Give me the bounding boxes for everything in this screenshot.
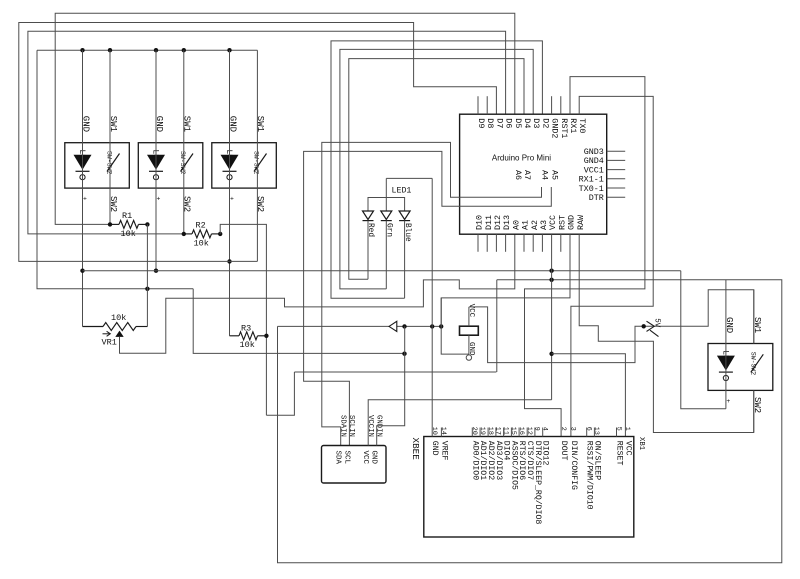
- module box 2 outline: [138, 143, 203, 188]
- wire: R1 right to VR1 right riser: [146, 224, 148, 326]
- svg-text:TX0: TX0: [577, 118, 587, 133]
- pin D9 (Arduino top): [477, 96, 479, 114]
- svg-text:SDA: SDA: [334, 451, 342, 465]
- svg-text:5: 5: [614, 427, 622, 431]
- svg-text:SW-SW2: SW-SW2: [253, 151, 260, 175]
- svg-text:SCL: SCL: [342, 451, 350, 465]
- svg-text:DOUT: DOUT: [559, 441, 568, 461]
- svg-text:+: +: [726, 398, 730, 405]
- svg-text:3: 3: [569, 427, 577, 431]
- pin RX1-1 (Arduino right FTDI): [607, 178, 626, 180]
- LED Blue of LED1: [399, 211, 410, 220]
- pin 16 RTS/DIO6 (XBee): [518, 428, 520, 437]
- svg-text:17: 17: [494, 427, 502, 435]
- svg-text:1: 1: [623, 427, 631, 431]
- svg-text:A4: A4: [540, 170, 550, 180]
- switch SW2 inside box 2: [181, 154, 194, 172]
- junction dot GND bus / Arduino VCC riser: [549, 269, 553, 273]
- pin RST1 (Arduino top): [560, 96, 562, 114]
- wire: box2 SW vertical (to R2 left): [183, 50, 185, 234]
- wire: riser x=496.8 (bottom-right rail to bus372): [496, 280, 498, 372]
- pin D12 (Arduino bottom): [495, 234, 497, 252]
- svg-text:R1: R1: [122, 211, 132, 221]
- wire: bus 288.8 corner down to bus 353.4: [193, 289, 404, 354]
- svg-text:D8: D8: [485, 118, 495, 128]
- svg-text:10k: 10k: [194, 239, 209, 249]
- svg-text:Red: Red: [366, 223, 374, 237]
- svg-text:SW2: SW2: [255, 196, 265, 212]
- wire: D7 net (Arduino D7 to bus1 / box3): [19, 23, 497, 262]
- pin 12 CTS/DIO7 (XBee): [526, 428, 528, 437]
- svg-text:A7: A7: [522, 170, 532, 180]
- svg-text:4: 4: [541, 427, 549, 431]
- wire: D6 net (Arduino D6 to R2 left): [28, 31, 506, 234]
- svg-text:13: 13: [592, 427, 600, 435]
- svg-text:9: 9: [533, 427, 541, 431]
- svg-text:RST1: RST1: [559, 118, 569, 138]
- pin VCC of power part: [468, 307, 470, 326]
- wire: VR1 wiper to A0 net: [120, 234, 515, 353]
- pin RST (Arduino bottom): [560, 234, 562, 252]
- svg-text:SW1: SW1: [752, 317, 762, 333]
- svg-text:GND: GND: [467, 342, 475, 356]
- svg-text:VCC: VCC: [361, 451, 369, 465]
- svg-text:12: 12: [525, 427, 533, 435]
- wire: R3-right link down to bus372: [266, 372, 294, 415]
- wire: TX0 to XBee DIN: [571, 96, 653, 436]
- wire: A4 to SDA (SDAIN): [322, 142, 542, 445]
- wire: box3 GND vertical (to bus1 and R3 left): [229, 50, 231, 336]
- wire: R2 right jog to R3-right vertical: [220, 224, 266, 415]
- svg-text:16: 16: [517, 427, 525, 435]
- pin 19 AD1/DIO1 (XBee): [479, 428, 481, 437]
- pin 11 DIO4 (XBee): [503, 428, 505, 437]
- wire: RAW staircase to box4 SW2: [579, 234, 754, 432]
- wire: 5V net from power part VCC: [469, 290, 754, 363]
- pin DTR (Arduino right FTDI): [607, 196, 626, 198]
- junction dot box2 GND / GND bus: [154, 269, 158, 273]
- svg-text:DIN/CONFIG: DIN/CONFIG: [569, 441, 579, 490]
- pin 13 ON/SLEEP (XBee): [593, 428, 595, 437]
- pin D11 (Arduino bottom): [486, 234, 488, 252]
- I2C block box: [322, 446, 387, 484]
- svg-text:GND: GND: [430, 441, 439, 456]
- svg-text:D3: D3: [531, 118, 541, 128]
- pin GND3 (Arduino right FTDI): [607, 150, 626, 152]
- wire: VCCIN to Arduino VCC riser: [368, 400, 551, 446]
- wire: GND bus drop to box4 LED lead: [681, 271, 726, 409]
- svg-text:11: 11: [501, 427, 509, 435]
- svg-text:SW1: SW1: [182, 116, 192, 132]
- VR1 wiper contact triangle: [115, 331, 123, 337]
- wire: box4 SW1 lead: [753, 290, 755, 344]
- svg-text:DTR: DTR: [589, 193, 604, 203]
- svg-text:ON/SLEEP: ON/SLEEP: [592, 441, 602, 480]
- svg-text:D4: D4: [522, 118, 532, 128]
- junction dot box3 GND / bus1: [227, 259, 231, 263]
- pin 9 DTR/SLEEP_RQ/DIO8 (XBee): [534, 428, 536, 437]
- svg-text:VCC: VCC: [623, 441, 632, 456]
- wire: Grn cathode to D3 net: [385, 221, 387, 289]
- svg-text:A6: A6: [513, 170, 523, 180]
- svg-text:D9: D9: [476, 118, 486, 128]
- svg-text:SW-SW2: SW-SW2: [106, 151, 113, 175]
- wire: D4 net: [349, 59, 524, 280]
- svg-text:2: 2: [559, 427, 567, 431]
- junction dots on top bus: [80, 48, 84, 52]
- svg-text:LED: LED: [224, 150, 233, 165]
- svg-text:D6: D6: [504, 118, 514, 128]
- wire: box2 GND vertical: [155, 50, 157, 271]
- pin 18 AD2/DIO2 (XBee): [487, 428, 489, 437]
- svg-text:RESET: RESET: [615, 441, 624, 466]
- LED D2 inside box 2: [147, 155, 165, 170]
- junction dot box1 GND / GND bus: [80, 269, 84, 273]
- wire: box4 SW2 drop: [753, 390, 755, 432]
- wire: Red cathode to D4 net: [367, 221, 369, 280]
- wire: D2 net: [331, 41, 542, 298]
- XBee XB1 box: [424, 437, 634, 538]
- module box 3 outline: [212, 143, 276, 188]
- svg-text:VR1: VR1: [102, 338, 117, 348]
- wire: GNDIN riser: [377, 326, 405, 445]
- wire: GND pin net: [441, 234, 570, 354]
- svg-text:GND2: GND2: [550, 118, 560, 138]
- wire: LED1 feed from XBee pin10 riser: [386, 177, 432, 179]
- svg-text:10: 10: [430, 427, 438, 435]
- junction dot bottom-right rail / VCC riser: [549, 278, 553, 282]
- pin A1 (Arduino bottom): [523, 234, 525, 252]
- pin 14 VREF (XBee): [440, 428, 442, 437]
- wire: LED1 anode bus: [368, 198, 405, 212]
- svg-text:SW-SW2: SW-SW2: [179, 151, 186, 175]
- junction dot bus353.4 / GNDIN riser: [402, 352, 406, 356]
- svg-text:+: +: [157, 196, 161, 203]
- svg-text:Arduino Pro Mini: Arduino Pro Mini: [492, 154, 551, 163]
- svg-text:LED1: LED1: [392, 187, 412, 196]
- LED D3 inside box 3: [221, 155, 239, 170]
- svg-text:LED: LED: [150, 150, 159, 165]
- pin 20 AD0/DIO0 (XBee): [471, 428, 473, 437]
- svg-text:XBEE: XBEE: [410, 438, 421, 461]
- resistor R1 10k: [110, 223, 119, 225]
- wire: triangle net horizontal y=326.4: [278, 325, 442, 327]
- svg-text:D7: D7: [494, 118, 504, 128]
- wire: XBee pin10 riser up to LED1 feed: [431, 178, 433, 436]
- switch inside box 4: [751, 354, 764, 372]
- pin D10 (Arduino bottom): [477, 234, 479, 252]
- svg-text:LED: LED: [77, 150, 86, 165]
- svg-text:RAW: RAW: [576, 214, 586, 230]
- junction dot bus288.8 / VR1 right riser: [145, 287, 149, 291]
- LED D1 inside box 1: [74, 155, 92, 170]
- svg-text:GND: GND: [724, 317, 734, 333]
- wire: A5 to SCL (SCLIN): [304, 151, 552, 445]
- wire: VCC riser: [551, 234, 553, 400]
- wire: Blue cathode to D2 net: [404, 221, 406, 299]
- svg-text:18: 18: [486, 427, 494, 435]
- LED Grn of LED1: [381, 211, 392, 220]
- svg-text:10k: 10k: [121, 229, 136, 239]
- pin A3 (Arduino bottom): [541, 234, 543, 252]
- wire: box1 GND vertical (top bus to VR1 left): [82, 50, 84, 326]
- svg-text:A5: A5: [549, 170, 559, 180]
- wire: box3 SW vertical: [256, 50, 258, 261]
- wire: GND bus y=270.7 (box1/box2 GND to box4): [83, 270, 681, 272]
- svg-text:D2: D2: [540, 118, 550, 128]
- LED inside box 4: [717, 356, 735, 371]
- svg-text:LED: LED: [720, 350, 729, 365]
- wire: RX1 to XBee DOUT: [525, 77, 645, 437]
- wire: bus y=372: [294, 371, 496, 373]
- pin A2 (Arduino bottom): [532, 234, 534, 252]
- wire: box1 SW vertical (top bus to R1 left): [109, 50, 111, 224]
- svg-text:Blue: Blue: [403, 223, 411, 242]
- wire: box4 GND lead: [725, 280, 727, 409]
- svg-text:DIO12: DIO12: [541, 441, 550, 466]
- pin GND2 (Arduino top): [551, 96, 553, 114]
- svg-text:SW1: SW1: [255, 116, 265, 132]
- wire: GND-net drop x=441.2: [440, 298, 442, 327]
- svg-text:SCLIN: SCLIN: [347, 415, 355, 437]
- pin 4 DIO12 (XBee): [542, 428, 544, 437]
- svg-text:5V: 5V: [653, 318, 661, 328]
- wire: top bus over switch boxes (net SW/GND top rail): [37, 49, 257, 51]
- svg-text:10k: 10k: [111, 313, 126, 323]
- power part P1 body: [460, 326, 479, 335]
- pin D13 (Arduino bottom): [505, 234, 507, 252]
- pin D8 (Arduino top): [486, 96, 488, 114]
- svg-text:SW-SW2: SW-SW2: [750, 352, 757, 376]
- svg-text:DIO4: DIO4: [502, 441, 511, 461]
- switch SW1 inside box 1: [107, 154, 120, 172]
- svg-text:15: 15: [509, 427, 517, 435]
- svg-text:10k: 10k: [240, 340, 255, 350]
- wire: D3 net: [340, 49, 533, 289]
- svg-text:SW2: SW2: [182, 196, 192, 212]
- wire: top bus riser x=37 down to bus 288.8: [37, 50, 193, 289]
- svg-text:14: 14: [439, 427, 447, 435]
- VR1 wiper arrow mark: [103, 333, 110, 335]
- switch SW3 inside box 3: [254, 154, 267, 172]
- svg-text:+: +: [230, 196, 234, 203]
- pin TX0-1 (Arduino right FTDI): [607, 187, 626, 189]
- pin GND4 (Arduino right FTDI): [607, 159, 626, 161]
- svg-text:VCC: VCC: [467, 304, 475, 318]
- wire: triangle net west drop to bottom rail: [278, 280, 782, 563]
- resistor R2 10k: [184, 233, 192, 235]
- svg-text:Grn: Grn: [385, 223, 393, 237]
- resistor R3 10k: [230, 335, 240, 337]
- pin GND of power part: [468, 335, 470, 355]
- svg-text:R3: R3: [241, 323, 251, 333]
- svg-text:D5: D5: [513, 118, 523, 128]
- wire: D5 net (Arduino D5 to R1 left): [55, 13, 515, 224]
- module box 4 outline: [708, 344, 773, 391]
- svg-text:R2: R2: [196, 221, 206, 231]
- svg-text:VREF: VREF: [439, 441, 448, 461]
- svg-text:GND: GND: [370, 451, 378, 465]
- svg-text:VCCIN: VCCIN: [366, 415, 374, 437]
- module box 1 outline: [65, 143, 130, 188]
- net-in triangle marker: [389, 321, 397, 331]
- junction dot R3 right: [264, 334, 268, 338]
- svg-text:6: 6: [585, 427, 593, 431]
- Arduino Pro Mini U1 box: [460, 114, 607, 234]
- power flag 5V: [642, 324, 646, 328]
- LED Red of LED1: [363, 211, 374, 220]
- svg-text:XB1: XB1: [637, 437, 645, 451]
- pin 6 RSSI/PWM/DIO10 (XBee): [586, 428, 588, 437]
- wire: VCC bus segment to XBee pin1: [552, 354, 626, 437]
- pin 5 RESET (XBee): [616, 428, 618, 437]
- svg-text:RX1: RX1: [568, 118, 578, 133]
- pin VCC1 (Arduino right FTDI): [607, 169, 626, 171]
- svg-text:+: +: [83, 196, 87, 203]
- pin 17 AD3/DIO3 (XBee): [495, 428, 497, 437]
- svg-text:SDAIN: SDAIN: [338, 415, 346, 437]
- junction dots on triangle net: [402, 324, 406, 328]
- potentiometer VR1 10k body: [83, 326, 104, 328]
- pin 15 ASSOC/DIO5 (XBee): [510, 428, 512, 437]
- svg-text:19: 19: [478, 427, 486, 435]
- svg-text:20: 20: [470, 427, 478, 435]
